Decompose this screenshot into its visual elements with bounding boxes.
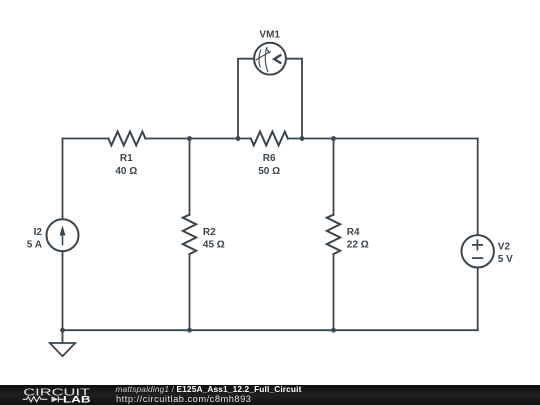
svg-text:VM1: VM1 <box>259 29 280 40</box>
current source I2 <box>47 219 79 251</box>
wire R4 branch upper <box>333 139 335 215</box>
CircuitLab logo resistor zigzag <box>23 397 48 402</box>
V2 plus sign <box>472 239 483 250</box>
wire left branch lower <box>62 251 64 330</box>
wire R4 branch lower <box>333 254 335 330</box>
svg-text:5 V: 5 V <box>498 254 513 265</box>
resistor R2 <box>183 215 196 254</box>
wire bottom rail <box>63 329 478 331</box>
node junction dot VM1 right <box>300 136 305 141</box>
svg-text:I2: I2 <box>34 227 43 238</box>
svg-text:http://circuitlab.com/c8mh893: http://circuitlab.com/c8mh893 <box>116 394 251 404</box>
svg-text:R6: R6 <box>263 153 276 164</box>
wire left branch upper <box>62 139 64 220</box>
svg-text:45 Ω: 45 Ω <box>203 239 225 250</box>
resistor R4 <box>327 215 340 254</box>
wire right branch lower <box>477 268 479 331</box>
svg-text:V2: V2 <box>498 242 511 253</box>
wire top rail middle segment <box>145 138 250 140</box>
wire top rail left segment <box>63 138 109 140</box>
resistor R1 <box>108 132 145 146</box>
wire top rail right segment <box>288 138 478 140</box>
node junction dot R1/R2 <box>187 136 192 141</box>
svg-text:5 A: 5 A <box>27 239 42 250</box>
ground <box>50 343 75 356</box>
wire R2 branch upper <box>189 139 191 215</box>
voltage source V2 <box>462 235 494 267</box>
node junction dot R4 bottom <box>331 328 336 333</box>
wire ground stub <box>62 330 64 343</box>
I2 arrow <box>60 225 66 245</box>
V2 minus sign <box>472 257 483 259</box>
wire voltmeter right riser <box>286 59 302 139</box>
CircuitLab logo diode <box>52 396 64 402</box>
svg-text:40 Ω: 40 Ω <box>115 166 137 177</box>
voltmeter VM1 <box>254 43 286 75</box>
svg-text:mattspalding1 / E125A_Ass1_12.: mattspalding1 / E125A_Ass1_12.2_Full_Cir… <box>116 384 302 394</box>
svg-text:50 Ω: 50 Ω <box>258 166 280 177</box>
wire right branch upper <box>477 139 479 236</box>
wire voltmeter left riser <box>238 59 254 139</box>
node junction dot ground <box>60 328 65 333</box>
node junction dot VM1 left <box>236 136 241 141</box>
VM1 meter face <box>256 47 271 72</box>
svg-text:R1: R1 <box>120 153 133 164</box>
VM1 needle arrow <box>274 55 281 64</box>
svg-text:22 Ω: 22 Ω <box>347 239 369 250</box>
node junction dot R2 bottom <box>187 328 192 333</box>
svg-text:R4: R4 <box>347 227 360 238</box>
svg-text:R2: R2 <box>203 227 216 238</box>
wire R2 branch lower <box>189 254 191 330</box>
node junction dot R4 top <box>331 136 336 141</box>
svg-text:LAB: LAB <box>63 394 91 404</box>
resistor R6 <box>251 132 288 146</box>
